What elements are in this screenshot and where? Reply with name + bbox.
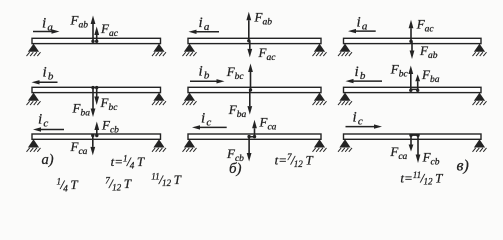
- support right of beam b (col b): [313, 93, 327, 106]
- svg-text:а): а): [42, 152, 54, 168]
- current arrow i_b (col b, rightward): [190, 79, 225, 83]
- support left of beam c (col b): [183, 139, 197, 152]
- support right of beam a (col c): [473, 44, 487, 57]
- force F_ab (col b, up): [246, 12, 251, 43]
- svg-text:t=1/4 T: t=1/4 T: [111, 154, 145, 171]
- current arrow i_a (col a, rightward): [33, 29, 60, 33]
- support right of beam a (col a): [152, 44, 166, 57]
- beam conductor a (column b): [188, 38, 321, 43]
- beam conductor a (column a): [32, 38, 161, 43]
- force F_ac (col b, down): [247, 41, 252, 58]
- svg-text:1/4 T: 1/4 T: [57, 177, 79, 194]
- current arrow i_a (col b, leftward): [189, 30, 220, 34]
- force F_cb (col c, down tall): [416, 134, 421, 164]
- support left of beam c (col c): [338, 139, 352, 152]
- force F_ca (col c, down short): [409, 134, 414, 152]
- svg-text:t=11/12 T: t=11/12 T: [400, 170, 443, 187]
- force F_bc (col b, up): [248, 64, 253, 92]
- support left of beam b (col c): [338, 93, 352, 106]
- force F_ac (col a, up): [94, 27, 99, 44]
- force F_cb (col a, up): [94, 122, 99, 138]
- current arrow i_c (col b, leftward): [192, 125, 227, 129]
- force F_cb (col b, down): [247, 135, 252, 162]
- force F_ba (col a, down): [91, 86, 96, 117]
- beam conductor c (column b): [188, 134, 321, 139]
- support left of beam a (col b): [183, 44, 197, 57]
- beam conductor b (column a): [32, 87, 161, 92]
- beam conductor b (column c): [344, 87, 482, 92]
- force F_ca (col a, down): [90, 134, 95, 156]
- beam conductor b (column b): [188, 87, 321, 92]
- force F_ab (col c, down): [410, 41, 415, 59]
- support right of beam b (col c): [473, 93, 487, 106]
- junction tick on beam c (col b): [249, 136, 257, 138]
- beam conductor c (column a): [32, 134, 161, 139]
- current arrow i_b (col a, leftward): [32, 80, 58, 84]
- force F_ba (col b, down): [247, 90, 252, 115]
- force F_ca (col b, up): [252, 120, 257, 139]
- current arrow i_c (col a, leftward): [33, 127, 64, 131]
- svg-text:б): б): [229, 161, 242, 177]
- support right of beam c (col a): [152, 139, 166, 152]
- junction tick on beam c (col c): [410, 134, 419, 136]
- support left of beam b (col b): [183, 93, 197, 106]
- support right of beam c (col b): [313, 139, 327, 152]
- force F_ac (col c, up): [409, 20, 414, 43]
- support left of beam b (col a): [27, 93, 41, 106]
- support left of beam c (col a): [27, 139, 41, 152]
- force F_bc (col a, down): [94, 86, 99, 105]
- svg-text:в): в): [457, 158, 469, 175]
- beam conductor a (column c): [344, 38, 482, 43]
- svg-text:t=7/12 T: t=7/12 T: [275, 152, 314, 169]
- support right of beam c (col c): [473, 139, 487, 152]
- support left of beam a (col a): [27, 44, 41, 57]
- support left of beam a (col c): [338, 44, 352, 57]
- force F_bc (col c, up tall): [408, 66, 413, 93]
- support right of beam a (col b): [313, 44, 327, 57]
- current arrow i_c (col c, rightward): [346, 124, 383, 128]
- beam conductor c (column c): [344, 134, 482, 139]
- current arrow i_b (col c, leftward): [346, 79, 383, 83]
- junction tick on beam b (col c): [410, 89, 419, 91]
- current arrow i_a (col c, leftward): [348, 29, 376, 33]
- force F_ab (col a, up): [91, 16, 96, 44]
- support right of beam b (col a): [152, 93, 166, 106]
- force F_ba (col c, up short): [415, 74, 420, 92]
